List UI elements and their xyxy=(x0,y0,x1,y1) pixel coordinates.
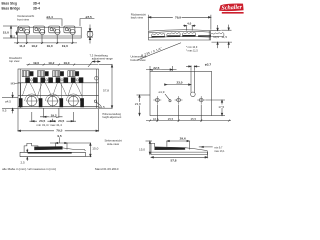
svg-text:19,2: 19,2 xyxy=(51,113,57,117)
back view label xyxy=(131,13,146,20)
svg-text:57,8: 57,8 xyxy=(170,159,176,163)
front saddle 1 xyxy=(18,26,29,35)
top view bottom dimension 19,2 xyxy=(40,108,63,117)
bottom view 17,5 dimension xyxy=(206,100,227,116)
svg-text:min 31,4 / max 41,4: min 31,4 / max 41,4 xyxy=(37,123,63,127)
side view 9,5 dimension xyxy=(50,134,91,150)
back view 4,0 dimension xyxy=(183,21,196,30)
svg-text:bottom-view: bottom-view xyxy=(131,58,147,62)
Schaller logo xyxy=(219,4,244,14)
bottom view string slot xyxy=(191,71,196,96)
bottom right side view profile xyxy=(151,143,208,154)
svg-text:15,0: 15,0 xyxy=(3,30,9,34)
top view 57,8 dimension xyxy=(99,65,113,109)
svg-text:23,8: 23,8 xyxy=(135,102,141,106)
svg-text:15,0: 15,0 xyxy=(139,147,145,151)
svg-text:⌀3,7: ⌀3,7 xyxy=(205,62,211,66)
front saddle 4 xyxy=(64,26,75,35)
top view min/max note xyxy=(37,123,63,127)
bottom right side view 57,8 dimension xyxy=(151,152,208,163)
M3 label xyxy=(11,81,23,85)
svg-text:17,5: 17,5 xyxy=(218,105,224,109)
bottom view dia 1,9 label xyxy=(159,90,172,102)
bottom view label xyxy=(131,55,147,62)
top view mounting hole 2 xyxy=(46,94,60,107)
back view saddles xyxy=(152,32,224,37)
bottom view plate xyxy=(150,71,212,115)
bottom view dia 3,7 dimension xyxy=(186,62,211,71)
svg-text:back view: back view xyxy=(131,16,144,20)
svg-text:25,5: 25,5 xyxy=(168,117,174,121)
svg-text:19,0: 19,0 xyxy=(47,44,53,48)
svg-text:25,5: 25,5 xyxy=(191,117,197,121)
front view 5,5 dimension xyxy=(11,31,17,39)
svg-text:alle Maße in [mm] / all measur: alle Maße in [mm] / all measures in [mm] xyxy=(2,167,56,171)
svg-text:⌀4,4: ⌀4,4 xyxy=(47,15,53,19)
top view string anchor bars xyxy=(19,98,84,107)
svg-text:79,5: 79,5 xyxy=(56,128,62,132)
svg-text:4,0: 4,0 xyxy=(187,21,191,25)
back view 79,9 dimension xyxy=(148,15,211,31)
side view 15,0 dimension xyxy=(86,143,99,157)
front view body xyxy=(18,27,82,38)
svg-text:57,8: 57,8 xyxy=(103,89,109,93)
title text block xyxy=(2,2,41,11)
svg-text:front view: front view xyxy=(17,17,30,21)
svg-text:23,0: 23,0 xyxy=(176,81,182,85)
svg-text:max 13,1: max 13,1 xyxy=(214,150,225,153)
bottom right side view 29,6 dimension xyxy=(167,137,190,150)
svg-text:19,0: 19,0 xyxy=(62,44,68,48)
back view body xyxy=(149,30,211,40)
bottom view screw hole 1 xyxy=(153,96,161,104)
svg-text:M3: M3 xyxy=(11,81,15,85)
svg-text:3D-4: 3D-4 xyxy=(33,7,40,11)
svg-text:3D-4: 3D-4 xyxy=(33,2,40,6)
svg-text:23,5: 23,5 xyxy=(58,119,64,123)
svg-text:⌀1,9: ⌀1,9 xyxy=(159,90,165,94)
svg-text:Bass Steg: Bass Steg xyxy=(2,2,17,6)
svg-text:22,5: 22,5 xyxy=(153,66,159,70)
height adjustment note xyxy=(102,113,121,119)
front saddle 2 xyxy=(34,26,45,35)
bottom right side view 15,0 dimension xyxy=(139,141,152,155)
front view string spacing dimension xyxy=(14,42,77,48)
side view 2,5 dimension xyxy=(21,149,28,165)
bottom view 22,5 dimension xyxy=(146,66,177,72)
svg-text:Stand 01.06.2010: Stand 01.06.2010 xyxy=(95,167,119,171)
top view mounting hole 1 xyxy=(25,94,39,107)
svg-text:29,6: 29,6 xyxy=(180,137,186,141)
top view bottom dimension 23,5 23,5 xyxy=(30,112,77,123)
svg-text:⌀4,5: ⌀4,5 xyxy=(5,100,11,104)
top view mounting hole 3 xyxy=(66,94,80,107)
top view saddle blocks xyxy=(25,77,83,82)
svg-text:9,5: 9,5 xyxy=(57,134,62,138)
front view dia 4,4 label xyxy=(47,15,63,26)
svg-text:⌀7,5: ⌀7,5 xyxy=(86,15,92,19)
svg-text:side-view: side-view xyxy=(107,142,120,146)
svg-text:* max 11,5: * max 11,5 xyxy=(186,49,198,52)
svg-text:16,5: 16,5 xyxy=(153,117,159,121)
footer notes xyxy=(2,167,119,171)
svg-text:top view: top view xyxy=(9,59,20,63)
svg-text:23,5: 23,5 xyxy=(39,119,45,123)
svg-text:79,9: 79,9 xyxy=(175,15,181,19)
back view height dimensions 10,9 / 11,5 xyxy=(211,25,233,48)
svg-text:5,5: 5,5 xyxy=(11,35,15,39)
top view spacing dimension 19,0 19,2 19,0 xyxy=(27,61,99,66)
svg-text:9,5: 9,5 xyxy=(2,109,7,113)
top view label xyxy=(9,56,22,63)
top view body plate xyxy=(18,69,99,108)
bottom view 23,8 dimension xyxy=(134,95,150,116)
back view radius leader R235 xyxy=(138,43,182,60)
top view 79,5 dimension xyxy=(18,109,99,133)
svg-text:⌀2,5: ⌀2,5 xyxy=(99,105,105,109)
front saddle 3 xyxy=(49,26,60,35)
bottom right side view min/max string height xyxy=(199,146,225,153)
svg-text:19,2: 19,2 xyxy=(48,61,54,65)
top view intonation screws xyxy=(22,71,79,77)
svg-text:19,0: 19,0 xyxy=(33,61,39,65)
front view string drop lines xyxy=(18,35,73,44)
svg-text:adjustment-range: adjustment-range xyxy=(92,57,113,61)
bottom view 23,0 dimension xyxy=(165,81,192,86)
top view left dimensions dia4,5 / 9,5 xyxy=(2,92,18,113)
top view screw head circles xyxy=(30,76,98,81)
svg-text:11,3: 11,3 xyxy=(19,44,25,48)
svg-text:height adjustment: height adjustment xyxy=(102,116,121,119)
roller detail dia 7,5 xyxy=(87,25,93,44)
bottom view hole spacing dimension xyxy=(146,105,231,122)
bottom view screw hole 2 xyxy=(175,96,183,104)
side view label xyxy=(105,139,123,147)
svg-text:2,5: 2,5 xyxy=(21,161,26,165)
back view footnotes xyxy=(186,46,198,52)
svg-text:Schaller: Schaller xyxy=(221,5,243,12)
front view label xyxy=(17,14,34,22)
svg-text:15,0: 15,0 xyxy=(92,147,98,151)
svg-text:10,9: 10,9 xyxy=(213,35,219,39)
adjustment range label 7,3 Verstellweg xyxy=(88,54,113,68)
svg-text:Bass Bridge: Bass Bridge xyxy=(2,7,21,11)
svg-text:19,2: 19,2 xyxy=(31,44,37,48)
dia 2,5 label xyxy=(94,100,105,109)
svg-text:19,0: 19,0 xyxy=(63,61,69,65)
bottom view screw hole 3 xyxy=(197,96,205,104)
top view saddle guide curves xyxy=(21,83,82,98)
side view profile xyxy=(20,143,86,156)
front view 15,0 dimension xyxy=(3,26,18,38)
svg-text:11,5: 11,5 xyxy=(221,35,227,39)
front view dia 7,5 label xyxy=(80,15,94,26)
